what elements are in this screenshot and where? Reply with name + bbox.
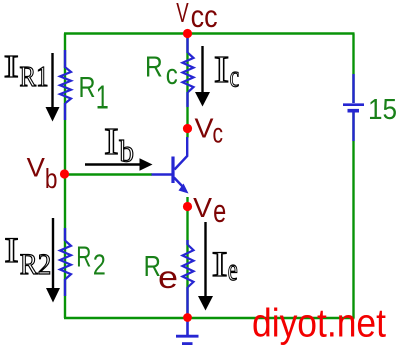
wire right rail lower [352, 112, 354, 318]
svg-text:R: R [145, 51, 163, 83]
node Vc dot [183, 124, 192, 133]
node Vcc dot [183, 29, 192, 38]
current arrow I_R2 [46, 218, 60, 303]
label Ve [193, 192, 226, 229]
transistor Q1 [173, 137, 189, 194]
wire collector branch [186, 34, 188, 138]
resistor Rc [183, 37, 194, 107]
svg-text:R: R [79, 72, 96, 104]
svg-text:V: V [195, 113, 215, 144]
label R1 [79, 72, 109, 116]
svg-text:1: 1 [96, 79, 109, 116]
svg-text:I: I [4, 230, 18, 270]
wire bottom rail [64, 317, 355, 319]
wire emitter branch [186, 197, 188, 318]
svg-text:V: V [193, 192, 212, 223]
resistor Re [183, 240, 194, 316]
battery B1 [343, 74, 364, 141]
svg-text:e: e [228, 251, 238, 287]
label I_R2 [4, 230, 51, 281]
label I_R1 [4, 49, 49, 93]
label Vb [27, 152, 58, 194]
node Ve dot [183, 202, 192, 211]
label R2 [76, 242, 106, 282]
svg-text:I: I [4, 49, 19, 84]
svg-text:V: V [27, 152, 46, 182]
svg-text:c: c [230, 59, 240, 94]
current arrow I_b [85, 158, 153, 171]
svg-text:cc: cc [191, 0, 218, 34]
label I_b [104, 121, 134, 168]
ground [176, 318, 199, 344]
label I_c [214, 49, 239, 94]
label I_e [212, 244, 238, 287]
current arrow I_c [195, 46, 210, 107]
wire top rail Vcc [64, 32, 355, 34]
current arrow I_e [198, 222, 213, 311]
label Rc [145, 51, 178, 91]
svg-text:c: c [166, 59, 178, 91]
svg-text:diyot.net: diyot.net [252, 302, 386, 346]
label Re [144, 251, 178, 295]
svg-text:b: b [45, 163, 58, 194]
wire left rail [64, 34, 66, 319]
svg-text:c: c [213, 118, 224, 149]
svg-text:15: 15 [368, 94, 397, 126]
node ground junction dot [183, 313, 192, 322]
svg-text:2: 2 [93, 249, 106, 281]
svg-text:I: I [212, 244, 228, 284]
svg-text:e: e [213, 193, 226, 229]
svg-text:I: I [104, 121, 119, 163]
svg-text:R1: R1 [20, 61, 49, 93]
resistor R2 [60, 228, 71, 296]
wire base lead (blue) [152, 173, 173, 175]
node Vb dot [60, 169, 69, 178]
wire right rail upper [352, 34, 354, 104]
svg-text:R: R [76, 242, 91, 274]
current arrow I_R1 [46, 53, 60, 122]
svg-text:e: e [158, 259, 178, 295]
svg-text:b: b [119, 133, 134, 168]
label Vc [195, 113, 224, 149]
svg-text:I: I [214, 49, 230, 91]
svg-text:R2: R2 [20, 248, 52, 281]
label Vcc [176, 0, 217, 34]
resistor R1 [60, 50, 71, 120]
svg-text:V: V [176, 0, 189, 28]
wire base [65, 173, 152, 175]
